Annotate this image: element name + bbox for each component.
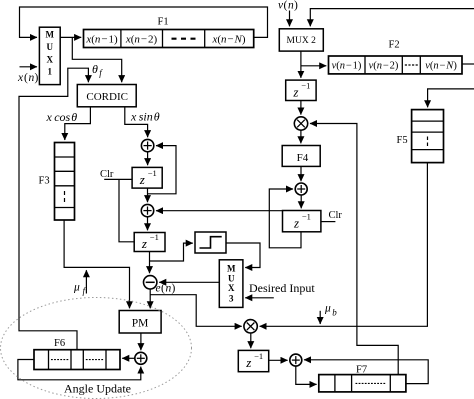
multiplier M2 [244,320,257,333]
input mu-f arrow [85,270,87,293]
register F7 [319,375,406,392]
svg-text:x: x [17,72,24,84]
svg-text:): ) [35,72,39,84]
dashed ellipse angle update region [1,298,192,399]
adder A5 [290,354,302,366]
wire: sign block output to MUX3 [226,243,260,268]
label Clr left [100,169,114,180]
svg-text:z: z [293,216,299,231]
svg-text:M: M [46,29,55,39]
svg-text:F5: F5 [397,135,408,146]
delay z1 [132,167,162,188]
wire: M2 output to delay z5 [250,333,252,348]
wire: M1 output to F4 [300,130,302,143]
svg-text:z: z [292,85,298,100]
register F5 [412,110,444,163]
svg-text:X: X [47,55,54,65]
svg-text:PM: PM [132,318,149,330]
adder A1 [141,139,153,151]
svg-text:v(n − 2): v(n − 2) [369,61,399,72]
mux MUX3 [219,260,243,308]
wire: MUX1 output to F1 [60,36,81,38]
svg-text:): ) [294,0,298,12]
register F6 [34,350,120,370]
input mu-b arrow [319,311,321,324]
svg-text:F6: F6 [54,338,65,349]
wire: MUX2 output tap to F2 [301,65,326,67]
label F1 [158,16,169,27]
wire: F5 output down and left into multiplier M2 [260,163,428,327]
label Desired Input [249,281,315,295]
wire: A1 to delay z1 [147,152,149,165]
svg-text:U: U [47,42,54,52]
label x(n) [17,72,39,84]
wire: MUX1 output tap to CORDIC right input [72,37,121,82]
wire: CORDIC x-sin output to adder A1 [125,107,148,137]
svg-text:Clr: Clr [329,210,343,221]
svg-text:e: e [156,283,161,295]
svg-text:−1: −1 [148,168,157,178]
wire: z5 output to adder A5 [269,359,288,361]
wire: angle register F6 up to CORDIC theta-f input [19,68,88,350]
svg-text:F4: F4 [297,152,309,164]
svg-text:(: ( [161,283,165,295]
svg-text:CORDIC: CORDIC [86,91,128,103]
register F3 [55,143,75,221]
svg-text:v(n − N): v(n − N) [425,61,457,72]
label mu-b [324,303,337,318]
wire: backward path tap to A2 [156,210,301,212]
svg-text:x(n − 1): x(n − 1) [85,33,118,45]
wire: z2 output tap to sign block [150,243,193,261]
svg-text:−1: −1 [150,232,159,242]
svg-text:−1: −1 [302,212,311,222]
wire: v(n) input into MUX2 [289,11,291,27]
svg-text:x cos θ: x cos θ [46,110,78,124]
svg-text:Clr: Clr [100,169,114,180]
wire: e(n) tap to multiplier M2 [150,295,242,327]
wire: A5 output into F7 [296,366,317,384]
svg-text:MUX 2: MUX 2 [287,36,317,46]
label F6 [54,338,65,349]
svg-text:b: b [332,308,337,318]
label v(n) [278,0,298,12]
svg-text:U: U [228,273,235,283]
adder A4 [295,183,307,195]
svg-text:μ: μ [324,303,331,315]
svg-text:z: z [141,236,147,251]
wire: Clr to z1 and z2 [104,179,134,241]
wire: subtractor e(n) to PM right input [149,289,151,308]
sign block [195,232,226,253]
svg-text:x(n − 2): x(n − 2) [125,33,158,45]
svg-text:μ: μ [73,282,80,294]
svg-text:x(n − N): x(n − N) [211,33,245,45]
wire: x(n) input into MUX1 [20,66,38,68]
adder A3 [135,352,147,364]
subtractor minus [144,276,157,289]
label e(n) [156,283,176,295]
block CORDIC [77,85,136,107]
svg-text:z: z [245,355,251,370]
svg-text:3: 3 [229,293,234,303]
label F3 [39,176,50,187]
svg-text:(: ( [24,72,28,84]
svg-text:(: ( [284,0,288,12]
svg-text:1: 1 [48,66,53,76]
wire: MUX2 output to delay z3 [300,51,302,78]
register F2 [329,56,463,74]
mux MUX1 [39,27,60,84]
svg-text:X: X [228,283,235,293]
wire: PM output to adder A3 [140,333,142,350]
svg-text:θ: θ [92,62,98,76]
svg-text:): ) [172,283,176,295]
wire: z2 output to subtractor [149,252,151,274]
delay z4 [283,211,321,232]
label Angle Update [64,381,131,395]
wire: z3 output to multiplier M1 [300,101,302,115]
wire: MUX3 output to subtractor [159,281,219,283]
label Clr right with stub [321,210,343,222]
block F4 [282,146,320,167]
wire: F4 output to adder A4 [300,166,302,181]
svg-text:F1: F1 [158,16,169,27]
wire: A2 to delay z2 [147,217,149,231]
wire: F3 output with mu-f junction to PM left input [64,220,129,308]
svg-text:Angle Update: Angle Update [64,381,131,395]
register F1 [84,30,254,48]
wire: F1 output feedback to MUX1 input [20,7,268,37]
adder A2 [141,204,153,216]
label x cos theta [46,110,78,124]
wire: z4 accumulator loop into A4 [269,189,301,248]
label F5 [397,135,408,146]
delay z5 [238,350,268,371]
svg-text:M: M [227,263,236,273]
wire: Desired Input into MUX3 [245,297,274,299]
label F7 [356,365,367,376]
wire: F7 output loop to A5 [304,360,428,384]
svg-text:−1: −1 [254,351,263,361]
svg-text:v(n − 1): v(n − 1) [332,61,362,72]
svg-text:z: z [139,172,145,187]
svg-text:x sin θ: x sin θ [130,109,160,123]
wire: CORDIC x-cos output to F3 [65,107,91,140]
label mu-f [73,282,87,297]
wire: F2 output to right edge [462,63,474,65]
wire: tap from F7 cell up to multiplier M1 [310,124,398,375]
label F2 [389,40,400,51]
multiplier M1 [294,117,307,130]
svg-text:Desired Input: Desired Input [249,281,315,295]
svg-text:F3: F3 [39,176,50,187]
label x sin theta [130,109,160,123]
wire: z1 output to adder A2 [147,188,149,202]
svg-text:−1: −1 [301,81,310,91]
block PM [119,311,161,334]
wire: z1 feedback loop to A1 [148,146,177,194]
wire: A4 to delay z4 [300,195,302,208]
wire: from right edge down into F5 [428,89,474,107]
delay z2 [134,232,165,252]
wire: F6 output loop to A3 bottom [18,360,141,380]
wire: A3 output into F6 [122,357,135,359]
delay z3 right chain [286,80,316,100]
mux MUX2 [279,29,323,51]
label theta-f [92,62,103,78]
svg-text:F2: F2 [389,40,400,51]
wire: feedback from right edge into MUX2 [310,9,474,27]
